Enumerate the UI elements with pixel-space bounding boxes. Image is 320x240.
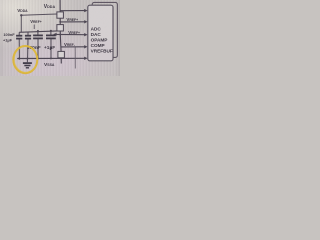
wire: VDDA top rail bbox=[21, 14, 57, 15]
tick below VREF+ rail label bbox=[33, 25, 35, 30]
back block outline bbox=[92, 2, 117, 57]
capacitor C4 (1uF) bbox=[50, 30, 52, 32]
capacitor C1 (100nF) bbox=[18, 32, 20, 35]
wire: VDDA cap branch vertical bbox=[20, 15, 22, 32]
capacitor C2 (1uF) bbox=[27, 32, 29, 35]
switch box SW2 bbox=[57, 25, 64, 31]
wire: VREF+ rail to caps bbox=[19, 31, 57, 32]
wire: VREF+ arrow (upper) into block bbox=[60, 21, 84, 23]
ground symbol bbox=[26, 59, 28, 63]
wire: VSSA rail to block bbox=[17, 57, 84, 59]
wire: VDDA arrow into block bbox=[60, 10, 85, 12]
wire: VDDA vertical main bbox=[60, 0, 61, 64]
analog block U1 (ADC/DAC/OPAMP/COMP/VREFBUF) bbox=[88, 5, 113, 61]
node dot at SW junction bbox=[59, 21, 61, 23]
switch box SW3 bbox=[58, 51, 65, 57]
node dots on VSSA rail bbox=[27, 58, 29, 60]
node dot bbox=[60, 34, 62, 36]
wire: vertical drop VREF- to VSSA rail bbox=[74, 47, 76, 68]
node A: VDDA label node bbox=[20, 14, 22, 16]
block gradient fill tint bbox=[89, 40, 113, 60]
wire: VREF+ arrow (lower) into block, double headed bbox=[54, 33, 84, 35]
capacitor C3 (100nF) bbox=[37, 30, 39, 32]
wire: VREF- arrow into block bbox=[61, 46, 85, 48]
switch box SW1 bbox=[57, 12, 64, 18]
film grain bbox=[0, 0, 120, 76]
annotation: yellow highlighter circle around ground bbox=[13, 46, 37, 73]
